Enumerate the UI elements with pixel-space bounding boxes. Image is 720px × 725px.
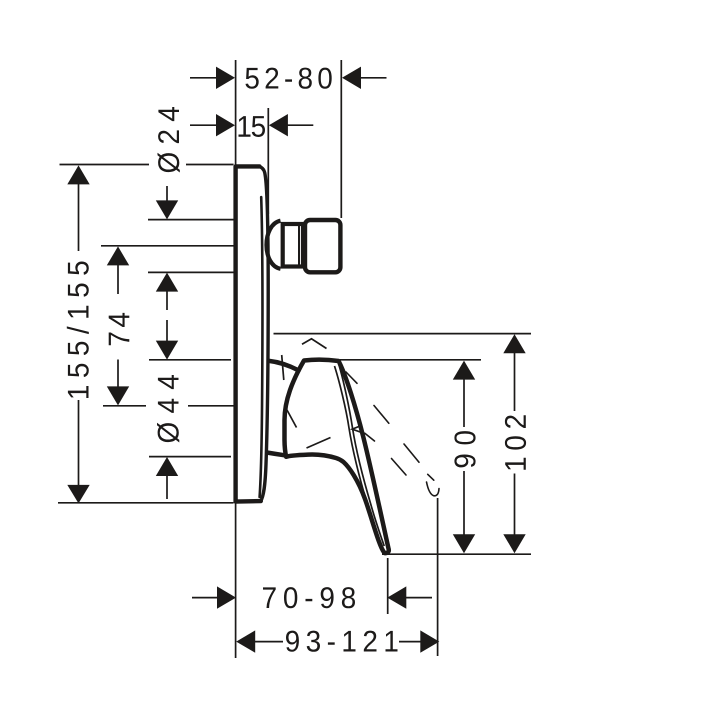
dimension 70-98	[192, 586, 432, 608]
lever neck bottom arc	[268, 453, 284, 456]
label 15	[239, 116, 266, 137]
tick inside hub upper	[287, 410, 297, 428]
dashed ghost lever open position	[346, 372, 439, 496]
extension line y164 plate top	[60, 164, 234, 166]
label 52-80	[246, 68, 332, 89]
extension line y245 knob centre	[101, 245, 234, 247]
extension line y503 plate bottom	[58, 502, 234, 504]
label 90	[454, 431, 475, 467]
extension line wall x235 bottom	[235, 503, 237, 658]
lever neck top arc	[269, 361, 299, 371]
label 102	[505, 415, 526, 470]
extension line x387 (70-98 right)	[387, 558, 389, 614]
escutcheon plate inner dome line	[260, 197, 263, 497]
dimension 155/155 vertical	[67, 165, 89, 503]
label O24	[158, 107, 180, 173]
ghost back edge dash	[392, 459, 407, 476]
cartridge cylinder inner line	[298, 225, 300, 266]
extension line y406 lever axis	[103, 405, 234, 407]
label 93-121	[286, 631, 398, 652]
extension line x268 (15 right)	[267, 108, 269, 214]
extension line y219 knob top	[148, 219, 234, 221]
extension line y333 lever top	[274, 333, 532, 335]
ghost front edge start	[346, 372, 357, 383]
tick mark on neck	[282, 355, 284, 380]
extension line y272 knob bottom	[148, 271, 234, 273]
escutcheon plate side view outline	[236, 166, 269, 501]
dimension 74 vertical	[107, 246, 129, 405]
dimension 90 vertical	[453, 361, 475, 554]
label 70-98	[263, 587, 355, 608]
label 74	[109, 313, 130, 345]
extension line x437 (93-121 right)	[437, 498, 439, 656]
ghost lever tip hook	[427, 482, 440, 496]
cartridge dome	[266, 221, 280, 269]
extension line y456 hub bottom	[149, 456, 231, 458]
dimension 102 vertical	[503, 334, 525, 553]
tick inside hub lower	[307, 438, 331, 449]
extension line y360 hub top	[149, 359, 481, 361]
lever handle hub and blade	[268, 360, 389, 553]
kink mark on blade	[352, 426, 364, 434]
escutcheon plate front face	[259, 167, 269, 502]
dimension O44 vertical	[156, 457, 178, 499]
label 155/155	[67, 262, 89, 399]
dimension 52-80	[190, 67, 387, 89]
dimension 15	[190, 114, 313, 136]
extension line x341 (52-80 right)	[340, 60, 342, 218]
ghost front edge dash	[428, 474, 434, 480]
knob	[305, 220, 340, 272]
ghost front edge dash	[404, 444, 419, 462]
ghost front edge dash	[374, 406, 389, 424]
cartridge cylinder	[283, 224, 303, 267]
chevron above lever	[302, 339, 327, 349]
dimension 93-121	[236, 630, 439, 652]
dimension O24 vertical	[156, 186, 178, 360]
label O44	[157, 375, 179, 443]
ghost back edge dash	[365, 433, 375, 441]
extension line y554 lever tip level	[382, 553, 531, 555]
lever blade inner lines	[282, 339, 385, 549]
extension line wall x235 top	[235, 60, 237, 166]
